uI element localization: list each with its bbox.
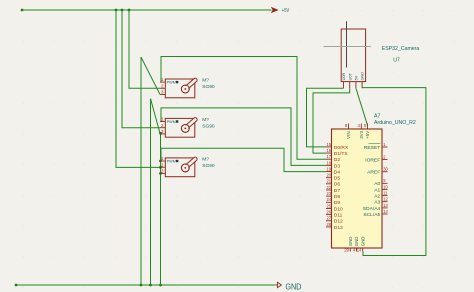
wire diagonal servo1 pin3: [141, 57, 160, 95]
Arduino pin 13 SDA/A4: [363, 203, 389, 212]
wire +5V to servo2 pin2: [122, 10, 160, 128]
svg-text:GND: GND: [361, 72, 365, 81]
svg-text:25: 25: [326, 203, 331, 208]
Arduino pin 18 D3: [326, 160, 340, 169]
svg-text:SG90: SG90: [202, 123, 215, 129]
power symbol +5V: [271, 7, 279, 13]
svg-text:D0/RX: D0/RX: [334, 145, 349, 151]
svg-text:SG90: SG90: [202, 84, 215, 90]
Arduino pin 19 D4: [326, 166, 340, 175]
svg-text:24: 24: [326, 197, 331, 202]
svg-text:22: 22: [326, 185, 331, 190]
svg-text:GND: GND: [354, 237, 359, 247]
wire diagonal servo2 pin3: [151, 99, 161, 134]
svg-text:D9: D9: [334, 200, 341, 206]
junction +5V/servo1 feed: [128, 9, 131, 12]
Arduino pin 11 A2: [374, 191, 388, 200]
Arduino pin 24 D9: [326, 197, 340, 206]
svg-text:PWM: PWM: [167, 81, 176, 85]
svg-text:12: 12: [383, 197, 388, 202]
Arduino pin 20 D5: [326, 173, 340, 182]
Arduino pin 22 D7: [326, 185, 340, 194]
Arduino pin 27 D12: [326, 216, 343, 225]
node +5V rail left end: [21, 9, 23, 11]
wire +5V to servo3 pin2: [116, 10, 160, 167]
wire ESP32 U0R to D0/RX: [307, 88, 344, 147]
Arduino pin 4 3V3: [358, 123, 364, 139]
Arduino pin 8 VIN: [345, 123, 351, 139]
wire GND rail: [16, 284, 277, 286]
Arduino pin 25 D10: [326, 203, 343, 212]
Arduino pin 2 IOREF: [365, 154, 387, 163]
svg-text:D2: D2: [334, 157, 341, 163]
svg-text:SDA/A4: SDA/A4: [363, 206, 381, 212]
Arduino pin 9 A0: [374, 178, 387, 187]
svg-text:14: 14: [383, 209, 388, 214]
Arduino pin 26 D11: [326, 210, 343, 219]
svg-text:GND: GND: [360, 237, 365, 247]
svg-text:29: 29: [344, 247, 349, 252]
svg-text:23: 23: [326, 191, 331, 196]
svg-text:U7: U7: [393, 58, 400, 64]
svg-text:11: 11: [383, 191, 388, 196]
svg-text:D11: D11: [334, 213, 343, 219]
svg-text:RESET: RESET: [364, 145, 380, 151]
svg-text:U0R: U0R: [342, 73, 346, 81]
svg-text:5V: 5V: [355, 75, 359, 80]
cursor crosshair horizontal: [324, 46, 371, 48]
Arduino pin 17 D2: [326, 154, 340, 163]
svg-text:14: 14: [357, 247, 362, 252]
svg-text:D13: D13: [334, 225, 343, 231]
svg-text:A7: A7: [374, 114, 380, 120]
svg-text:Arduino_UNO_R2: Arduino_UNO_R2: [374, 120, 416, 126]
Arduino pin 10 A1: [374, 184, 388, 193]
Arduino pin 28 D13: [326, 222, 343, 231]
junction servo3 pin1: [159, 160, 162, 163]
svg-text:D5: D5: [334, 176, 341, 182]
node GND rail left end: [15, 284, 17, 286]
Arduino pin 30 AREF: [367, 167, 388, 176]
svg-text:D1/TX: D1/TX: [334, 151, 349, 157]
svg-text:SG90: SG90: [202, 163, 215, 169]
svg-text:10: 10: [383, 184, 388, 189]
svg-text:A2: A2: [374, 194, 380, 200]
Arduino pin 12 A3: [374, 197, 388, 206]
svg-text:D4: D4: [334, 169, 341, 175]
svg-text:AREF: AREF: [367, 170, 380, 176]
wire GND return servo2: [150, 99, 152, 285]
Arduino pin 23 D8: [326, 191, 340, 200]
wire ESP32 U0T to D1/TX: [313, 88, 350, 153]
svg-text:VIN: VIN: [346, 131, 351, 138]
svg-text:26: 26: [326, 210, 331, 215]
servo motor M? SG90 #2: [160, 117, 215, 138]
svg-text:15: 15: [326, 142, 331, 147]
junction GND/servo3 return: [159, 284, 162, 287]
svg-text:20: 20: [326, 173, 331, 178]
svg-text:28: 28: [326, 222, 331, 227]
svg-text:27: 27: [326, 216, 331, 221]
junction GND/servo2 return: [149, 284, 152, 287]
wire +5V rail: [22, 9, 272, 11]
svg-text:M?: M?: [202, 78, 209, 84]
svg-text:U0T: U0T: [348, 73, 352, 81]
svg-text:+5V: +5V: [282, 8, 290, 14]
wire GND return servo3: [160, 133, 162, 285]
svg-text:18: 18: [326, 160, 331, 165]
servo motor M? SG90 #1: [160, 77, 215, 98]
svg-text:D12: D12: [334, 219, 343, 225]
Arduino pin 14 GND: [357, 237, 366, 253]
svg-text:D8: D8: [334, 194, 341, 200]
wire ESP32 GND to Arduino GND: [362, 88, 426, 256]
svg-text:M?: M?: [202, 157, 209, 163]
wire servo3 PWM to D4: [161, 148, 326, 171]
Arduino pin 5 +5V: [364, 123, 370, 139]
power symbol GND: [277, 282, 281, 287]
wire ESP32 5V to Arduino +5V pin: [356, 88, 368, 125]
wire servo2 PWM to D3: [161, 108, 326, 165]
wire +5V to servo1 pin2: [129, 10, 160, 88]
Arduino pin 21 D6: [326, 179, 340, 188]
junction +5V/servo3 feed: [115, 9, 118, 12]
wire GND return servo1: [140, 57, 142, 285]
Arduino pin 16 D1/TX: [326, 148, 348, 157]
svg-text:D6: D6: [334, 182, 341, 188]
junction GND/servo1 return: [140, 284, 143, 287]
svg-text:D7: D7: [334, 188, 341, 194]
svg-text:+5V: +5V: [365, 131, 370, 139]
servo motor M? SG90 #3: [160, 156, 215, 177]
svg-text:3V3: 3V3: [359, 130, 364, 138]
svg-text:19: 19: [326, 166, 331, 171]
wire servo1 PWM to D2: [161, 57, 326, 160]
svg-text:13: 13: [383, 203, 388, 208]
svg-text:A1: A1: [374, 187, 380, 193]
svg-text:ESP32_Camera: ESP32_Camera: [382, 46, 420, 52]
Arduino_UNO_R2 A7 module body: [332, 129, 383, 248]
svg-text:21: 21: [326, 179, 331, 184]
svg-text:GND: GND: [348, 237, 353, 247]
junction +5V/servo2 feed: [121, 9, 124, 12]
Arduino pin 29 GND: [344, 237, 353, 253]
svg-text:D10: D10: [334, 206, 343, 212]
svg-text:M?: M?: [202, 117, 209, 123]
Arduino pin 1 RESET: [364, 142, 388, 151]
junction servo3 pin2: [159, 166, 162, 169]
svg-text:30: 30: [383, 167, 388, 172]
svg-text:A0: A0: [374, 181, 380, 187]
svg-text:A3: A3: [374, 200, 380, 206]
Arduino pin 15 D0/RX: [326, 142, 349, 151]
Arduino pin 14 SCL/A5: [363, 209, 388, 218]
svg-text:PWM: PWM: [167, 120, 176, 124]
cursor crosshair vertical: [346, 21, 348, 67]
junction servo3 pin3: [159, 172, 162, 175]
svg-text:SCL/A5: SCL/A5: [363, 212, 380, 218]
svg-text:PWM: PWM: [167, 160, 176, 164]
svg-text:16: 16: [326, 148, 331, 153]
svg-text:IOREF: IOREF: [365, 157, 380, 163]
svg-text:17: 17: [326, 154, 331, 159]
ESP32_Camera U7 module: [341, 29, 365, 88]
svg-text:GND: GND: [285, 282, 301, 291]
svg-text:D3: D3: [334, 163, 341, 169]
junction servo2 pin3: [159, 132, 162, 135]
Arduino pin 4 GND: [353, 237, 359, 253]
